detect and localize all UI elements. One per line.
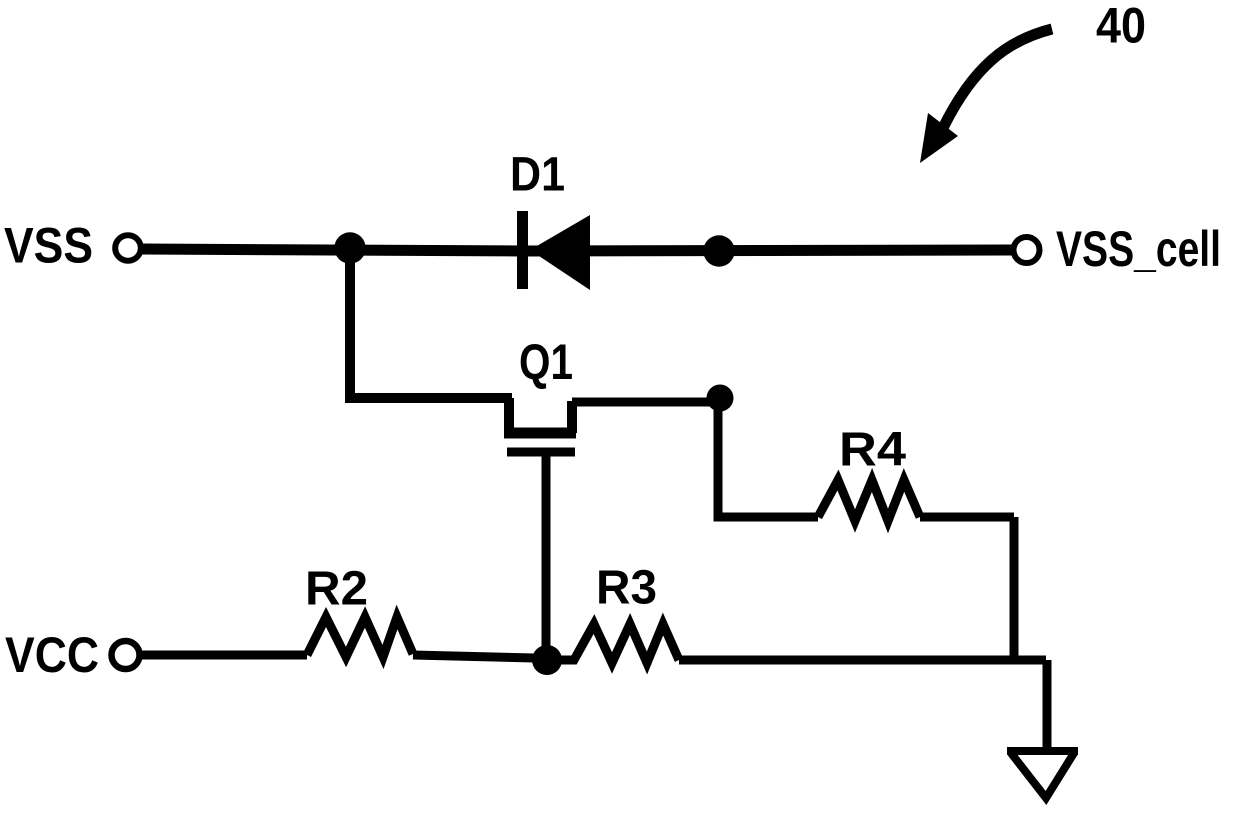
resistor R4 zigzag bbox=[818, 480, 920, 521]
svg-text:VSS: VSS bbox=[4, 218, 93, 274]
transistor Q1 left post bbox=[504, 398, 514, 433]
wire Q1 gate lead down bbox=[542, 452, 551, 655]
wire bottom rail to ground bbox=[679, 656, 1046, 665]
junction node B bbox=[703, 235, 734, 266]
junction node D bbox=[532, 645, 562, 675]
wire R4 leg down to bottom rail bbox=[1010, 517, 1019, 660]
terminal VSS_cell (open circle) bbox=[1014, 237, 1040, 263]
svg-text:VCC: VCC bbox=[5, 627, 99, 683]
leader arrow to 40 bbox=[920, 29, 1052, 163]
wire node C down to R4 bbox=[718, 398, 818, 517]
resistor R2 zigzag bbox=[307, 617, 413, 657]
transistor Q1 right post bbox=[567, 401, 577, 433]
svg-text:R2: R2 bbox=[305, 563, 368, 616]
wire Q1 drain to node B bbox=[572, 398, 712, 407]
wire R4 right lead bbox=[920, 513, 1014, 522]
terminal VSS (open circle) bbox=[115, 235, 141, 261]
diode D1 cathode bar bbox=[517, 211, 528, 289]
wire ground lead down bbox=[1043, 660, 1052, 749]
svg-text:R3: R3 bbox=[596, 562, 657, 615]
transistor Q1 channel bar bbox=[504, 428, 576, 439]
svg-text:D1: D1 bbox=[510, 149, 565, 202]
transistor Q1 gate bar bbox=[507, 448, 575, 457]
resistor R3 zigzag bbox=[560, 624, 679, 663]
svg-text:40: 40 bbox=[1096, 0, 1146, 54]
ground symbol triangle bbox=[1007, 747, 1078, 755]
wire R2 to node D bbox=[413, 655, 534, 658]
svg-text:R4: R4 bbox=[839, 424, 906, 477]
wire VSS top rail bbox=[142, 249, 1012, 251]
junction node C bbox=[707, 385, 734, 412]
svg-text:VSS_cell: VSS_cell bbox=[1056, 221, 1221, 277]
wire node A down to Q1 source bbox=[350, 244, 512, 398]
terminal VCC (open circle) bbox=[112, 641, 140, 669]
wire VCC to R2 bbox=[141, 651, 307, 660]
diode D1 triangle bbox=[530, 215, 590, 290]
junction node A bbox=[334, 232, 365, 263]
svg-text:Q1: Q1 bbox=[519, 334, 573, 390]
